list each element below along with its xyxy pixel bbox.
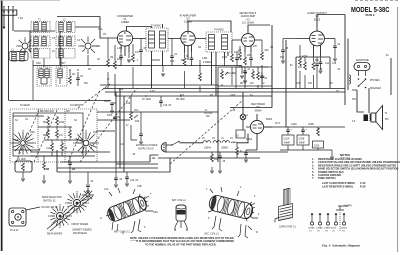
svg-text:7.: 7.: [312, 177, 314, 180]
svg-text:V5: V5: [342, 231, 345, 233]
svg-text:B+: B+: [386, 55, 390, 57]
svg-text:220K: 220K: [117, 59, 123, 61]
svg-text:I1: I1: [246, 115, 249, 117]
svg-text:1000: 1000: [107, 115, 113, 117]
svg-text:30MF: 30MF: [104, 101, 110, 103]
svg-text:10M: 10M: [260, 77, 265, 79]
svg-text:47K: 47K: [253, 46, 258, 48]
svg-text:1/2 12AV6: 1/2 12AV6: [242, 21, 254, 25]
svg-text:CABINET VIEWED: CABINET VIEWED: [72, 229, 92, 232]
svg-text:50C5: 50C5: [331, 228, 337, 230]
svg-text:V4: V4: [332, 231, 335, 233]
svg-text:BAT. COIL L4: BAT. COIL L4: [172, 199, 187, 202]
svg-text:C1A: C1A: [104, 188, 109, 191]
svg-text:C20B: C20B: [299, 139, 305, 141]
svg-text:R14: R14: [214, 159, 219, 161]
svg-text:35W4: 35W4: [246, 139, 253, 141]
svg-text:R15: R15: [296, 83, 301, 85]
svg-text:V2: V2: [202, 138, 206, 140]
svg-text:V1: V1: [221, 138, 225, 140]
svg-text:TONE SWITCH: TONE SWITCH: [318, 177, 336, 180]
svg-text:OSC: OSC: [30, 132, 35, 134]
svg-text:C9: C9: [80, 76, 84, 78]
svg-text:.005: .005: [264, 50, 269, 52]
svg-text:ANT: ANT: [61, 62, 66, 65]
svg-text:C3: C3: [52, 38, 56, 40]
svg-text:12BA6: 12BA6: [316, 227, 323, 230]
svg-text:150: 150: [298, 67, 303, 69]
svg-text:L2: L2: [63, 20, 66, 22]
svg-text:R17: R17: [180, 95, 185, 97]
svg-text:T3 455KC: T3 455KC: [151, 26, 162, 28]
svg-text:REAR WAFER: REAR WAFER: [47, 233, 63, 236]
svg-text:ON-OFF SW S2: ON-OFF SW S2: [41, 207, 58, 209]
svg-text:B+: B+: [290, 65, 294, 67]
svg-text:.05: .05: [64, 148, 68, 150]
svg-text:S1 REAR: S1 REAR: [20, 104, 30, 107]
svg-text:117V: 117V: [275, 123, 281, 125]
svg-text:.05: .05: [285, 48, 289, 50]
svg-text:35W4: 35W4: [266, 119, 273, 121]
svg-text:R1 1000: R1 1000: [17, 159, 26, 161]
svg-text:R2: R2: [46, 169, 50, 171]
svg-text:560: 560: [84, 83, 89, 85]
svg-text:BROADCAST: BROADCAST: [40, 110, 55, 113]
svg-text:35W4: 35W4: [255, 108, 262, 112]
svg-text:SWITCH S1: SWITCH S1: [43, 201, 56, 203]
svg-text:EXTERNAL POWER: EXTERNAL POWER: [136, 144, 158, 147]
svg-text:TO THE NOMINAL VALUE OF THE PA: TO THE NOMINAL VALUE OF THE PART BEING R…: [145, 243, 217, 246]
svg-text:RUN 2: RUN 2: [365, 13, 374, 17]
svg-text:.01: .01: [174, 54, 178, 56]
svg-text:C20B: C20B: [308, 124, 314, 126]
svg-text:LAST RESISTOR SYMBOL: LAST RESISTOR SYMBOL: [322, 186, 354, 189]
svg-text:VOLUME: VOLUME: [226, 73, 236, 75]
svg-text:T: T: [150, 194, 152, 196]
svg-text:LAMPS: LAMPS: [344, 205, 352, 208]
svg-text:40MF: 40MF: [284, 143, 290, 145]
svg-text:FROM REAR: FROM REAR: [73, 232, 87, 235]
svg-text:12BA6: 12BA6: [204, 147, 212, 150]
svg-text:C1B: C1B: [137, 186, 142, 188]
svg-text:S1A: S1A: [14, 139, 19, 142]
svg-text:47: 47: [107, 79, 110, 81]
svg-text:47K: 47K: [135, 52, 140, 54]
svg-text:FRONT WAFER: FRONT WAFER: [72, 223, 89, 226]
svg-text:SPEAKER: SPEAKER: [370, 87, 381, 90]
svg-text:ON-OFF: ON-OFF: [204, 113, 213, 115]
svg-text:.02: .02: [264, 78, 268, 80]
svg-text:+: +: [291, 130, 293, 132]
svg-text:1W: 1W: [250, 83, 254, 85]
svg-text:12BE6: 12BE6: [308, 228, 315, 230]
svg-text:P1 & S2: P1 & S2: [10, 230, 19, 232]
svg-text:2.2MEG: 2.2MEG: [203, 62, 212, 64]
svg-text:V4: V4: [230, 138, 234, 140]
svg-text:C4: C4: [72, 169, 76, 171]
svg-text:C12: C12: [46, 148, 51, 150]
svg-text:T1: T1: [38, 20, 41, 22]
svg-text:S2: S2: [74, 120, 78, 122]
svg-text:6.3V: 6.3V: [150, 91, 155, 93]
svg-text:.05: .05: [232, 110, 236, 112]
svg-text:V3: V3: [212, 138, 216, 140]
svg-text:C4: C4: [77, 40, 81, 42]
svg-text:C-52: C-52: [360, 182, 366, 185]
svg-text:2200: 2200: [59, 122, 65, 124]
svg-text:OSC: OSC: [36, 63, 41, 65]
svg-text:.02: .02: [90, 181, 94, 183]
svg-text:ANT. GANG C1: ANT. GANG C1: [114, 231, 131, 234]
svg-text:C11: C11: [325, 63, 330, 65]
svg-text:3: 3: [254, 196, 256, 198]
svg-text:150: 150: [308, 83, 313, 85]
svg-text:2: 2: [240, 187, 242, 189]
svg-text:.05: .05: [132, 154, 136, 156]
svg-text:35W4: 35W4: [341, 228, 347, 230]
svg-text:47: 47: [126, 125, 129, 127]
svg-text:1000: 1000: [230, 95, 236, 97]
svg-text:EARPHONE: EARPHONE: [356, 59, 369, 62]
svg-text:PM: PM: [385, 119, 389, 121]
svg-text:T2: T2: [385, 113, 388, 115]
svg-text:1: 1: [206, 189, 208, 191]
svg-text:C8: C8: [198, 47, 202, 49]
svg-text:C20A: C20A: [291, 123, 297, 126]
svg-text:R7 1000: R7 1000: [142, 99, 151, 101]
svg-text:R3: R3: [88, 69, 92, 71]
svg-text:1M: 1M: [244, 73, 247, 75]
svg-text:C9: C9: [270, 47, 274, 49]
svg-text:1 Mc: 1 Mc: [18, 18, 24, 20]
svg-text:35: 35: [330, 83, 333, 85]
svg-text:BAND SELECTOR: BAND SELECTOR: [42, 196, 62, 199]
svg-text:C18: C18: [332, 63, 337, 65]
svg-text:C2: C2: [25, 119, 29, 121]
svg-text:470: 470: [59, 135, 64, 137]
svg-text:10M: 10M: [247, 55, 252, 57]
svg-text:SUPPLY PLUG: SUPPLY PLUG: [138, 149, 154, 151]
svg-text:VOL: VOL: [134, 110, 139, 112]
svg-text:C14: C14: [120, 144, 125, 146]
svg-text:L5: L5: [52, 51, 55, 53]
svg-text:45V: 45V: [352, 99, 357, 101]
svg-text:R4: R4: [72, 74, 76, 76]
svg-text:.02: .02: [337, 44, 341, 46]
svg-text:2.2M: 2.2M: [202, 58, 207, 60]
svg-text:3.2: 3.2: [352, 121, 356, 123]
svg-text:.05: .05: [222, 161, 226, 163]
svg-text:.02: .02: [337, 69, 341, 71]
svg-text:P: P: [144, 227, 146, 229]
svg-text:C1A: C1A: [98, 28, 103, 31]
svg-text:+: +: [306, 130, 308, 132]
svg-text:SW: SW: [206, 116, 211, 118]
svg-text:.05: .05: [119, 179, 123, 181]
svg-text:.1: .1: [136, 60, 139, 62]
svg-text:OSC. COIL L2: OSC. COIL L2: [204, 234, 219, 236]
svg-text:40MF: 40MF: [299, 143, 305, 145]
svg-text:AVC: AVC: [170, 60, 175, 63]
svg-text:B-: B-: [240, 151, 243, 153]
svg-text:22: 22: [262, 83, 265, 85]
svg-text:4: 4: [258, 214, 260, 216]
svg-text:CAPACITOR C1: CAPACITOR C1: [279, 226, 296, 229]
svg-text:Fig. 4. Schematic Diagram: Fig. 4. Schematic Diagram: [322, 244, 360, 248]
svg-text:R9 1000: R9 1000: [176, 99, 185, 101]
svg-text:R10: R10: [135, 121, 140, 123]
svg-text:S2: S2: [236, 136, 240, 138]
svg-text:C5: C5: [103, 34, 107, 36]
svg-text:.05: .05: [143, 48, 147, 50]
svg-text:R-28: R-28: [360, 186, 366, 189]
svg-text:C13 .05: C13 .05: [130, 180, 139, 182]
svg-text:.01: .01: [247, 69, 251, 71]
svg-text:R16: R16: [126, 103, 131, 105]
svg-text:12BE6: 12BE6: [221, 148, 229, 150]
svg-text:C20A: C20A: [284, 138, 290, 141]
svg-text:2.2M: 2.2M: [117, 48, 122, 50]
svg-text:470K: 470K: [302, 56, 308, 58]
svg-text:470K: 470K: [234, 52, 240, 54]
svg-text:R12: R12: [119, 89, 124, 91]
svg-text:S1: S1: [15, 120, 19, 122]
svg-text:470K: 470K: [222, 57, 228, 59]
svg-text:1M: 1M: [110, 57, 113, 59]
svg-text:C6: C6: [97, 59, 101, 61]
svg-text:1200: 1200: [314, 146, 320, 148]
svg-text:C16 .05: C16 .05: [163, 105, 172, 107]
svg-text:R8: R8: [240, 83, 244, 85]
svg-text:OSC: OSC: [153, 212, 158, 214]
svg-text:68: 68: [186, 56, 189, 58]
svg-text:S1B: S1B: [93, 132, 98, 134]
svg-text:250: 250: [280, 57, 285, 59]
svg-text:S1 FRONT: S1 FRONT: [70, 105, 82, 107]
svg-text:V1: V1: [309, 231, 312, 233]
svg-text:6: 6: [208, 218, 210, 220]
svg-text:PHONES: PHONES: [370, 80, 380, 82]
svg-text:V3: V3: [325, 231, 328, 233]
svg-text:NOTES: NOTES: [340, 153, 350, 157]
svg-text:LAST CAPACITOR SYMBOL: LAST CAPACITOR SYMBOL: [322, 182, 356, 185]
svg-text:12BE6: 12BE6: [121, 20, 129, 24]
svg-text:T4 455KC: T4 455KC: [214, 30, 225, 32]
svg-text:G: G: [100, 218, 102, 220]
svg-text:V2: V2: [317, 231, 320, 233]
